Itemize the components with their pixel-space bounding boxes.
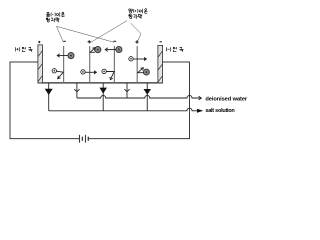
anion ion C3 with bounce arrow off M2 (90, 47, 101, 53)
plus sign above left electrode (38, 41, 40, 43)
label: (-) electrode (Korean, drawn) at (166,47) (166, 47, 183, 52)
label: anion passing membrane (Korean, drawn) (46, 12, 64, 22)
cell bottom line (38, 82, 163, 84)
membrane M3 (anion) (113, 46, 115, 83)
battery B1 (80, 135, 89, 143)
leader line from anion-membrane label to M1 (57, 26, 64, 42)
wire from (+) electrode to left side and bottom (10, 62, 79, 139)
전 (173, 47, 176, 52)
electrode right (-) (158, 45, 163, 83)
minus sign above M1 (63, 40, 65, 42)
deionised water open arrow head (199, 96, 202, 100)
cation ion C3 with bounce arrow off M3 (102, 69, 114, 79)
cation ion C4 with arrow through M4 (129, 57, 147, 61)
cation ion C1 with bounce arrow off M1 (52, 69, 63, 79)
outflow arrow concentrate from anode compartment (45, 84, 53, 111)
line2: 통과막 at (46,17.8) (46, 18, 50, 22)
membrane M1 (anion) (63, 46, 65, 83)
plus sign above M4 (135, 40, 138, 43)
deionised water collector line with hops (77, 96, 201, 99)
전 (22, 47, 25, 52)
극 (179, 48, 183, 52)
anion ion C5 with bounce arrow off M4 (138, 68, 150, 75)
label: cation passing membrane (Korean, drawn) (129, 9, 148, 19)
leader line from anion-membrane label to M3 (57, 26, 115, 42)
salt solution collector line with hop (49, 108, 198, 111)
anion ion C4 with arrow through M3 (105, 46, 122, 52)
membrane M2 (cation) (89, 46, 91, 83)
line1: 음(-)이온 at (46,12.3) (46, 12, 50, 16)
plus sign above M2 (88, 40, 91, 43)
outflow arrow diluate compartment 2 (74, 84, 79, 99)
svg-text:salt solution: salt solution (205, 108, 235, 114)
cation ion C2 with arrow through M2 (81, 70, 97, 74)
line2: 통과막 at (128.5,14.3) (129, 14, 133, 18)
leader line from cation-membrane label to M2 (90, 21, 127, 43)
leader line from cation-membrane label to M4 (131, 23, 141, 41)
membrane M4 (cation) (136, 46, 138, 83)
anion ion C2 with arrow through M1 (57, 53, 74, 59)
outflow arrow concentrate cathode compartment (144, 84, 152, 111)
svg-text:deionised water: deionised water (205, 96, 248, 102)
minus sign above right electrode (160, 41, 162, 43)
outflow arrow diluate compartment 4 (124, 84, 129, 99)
label: (+) electrode (Korean, drawn) at (15,47) (15, 47, 32, 52)
wire from (-) electrode to right side and bottom (89, 62, 190, 139)
line1: 양(+)이온 at (128.5,8.8) (129, 9, 133, 13)
electrode left (+) (38, 45, 43, 83)
salt solution filled arrow head (197, 109, 203, 113)
극 (28, 48, 32, 52)
outflow arrow concentrate compartment 3 (99, 84, 107, 111)
minus sign above M3 (113, 40, 116, 42)
